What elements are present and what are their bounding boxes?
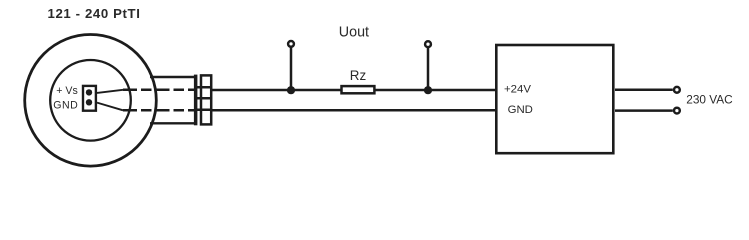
wire fan from pin 2 xyxy=(97,103,123,111)
svg-text:+ Vs: + Vs xyxy=(56,85,78,97)
wire supply to 230VAC top xyxy=(615,89,673,92)
Uout terminal stub right xyxy=(427,48,430,90)
svg-text:121 - 240 PtTI: 121 - 240 PtTI xyxy=(48,6,141,21)
power supply box xyxy=(496,45,613,153)
svg-text:GND: GND xyxy=(53,100,78,112)
connector pin 2 (GND) xyxy=(86,99,92,105)
cable housing bottom line xyxy=(150,122,197,124)
terminal strip rung 3 xyxy=(194,109,212,112)
terminal strip rung 1 xyxy=(194,86,212,89)
connector pin 1 (+Vs) xyxy=(86,89,92,95)
sensor inner circle xyxy=(50,60,131,141)
svg-text:Rz: Rz xyxy=(350,68,367,83)
Uout terminal circle left xyxy=(288,41,294,47)
Uout terminal circle right xyxy=(425,41,431,47)
junction node left xyxy=(287,86,295,94)
dashed cable wire +Vs xyxy=(123,89,196,92)
wire top output xyxy=(212,89,341,92)
cable housing top line xyxy=(150,76,197,78)
resistor Rz xyxy=(342,86,375,93)
junction node right xyxy=(424,86,432,94)
sensor outer circle xyxy=(25,35,157,167)
Uout terminal stub left xyxy=(290,48,293,91)
terminal strip body xyxy=(201,75,211,124)
terminal strip rung 2 xyxy=(194,97,212,100)
dashed cable wire GND xyxy=(123,109,196,112)
terminal strip mating bar xyxy=(194,75,198,126)
svg-text:Uout: Uout xyxy=(339,25,369,41)
svg-text:GND: GND xyxy=(508,104,533,116)
sensor connector box xyxy=(83,86,96,111)
svg-text:+24V: +24V xyxy=(504,84,531,96)
230VAC terminal circle top xyxy=(674,87,680,93)
svg-text:230 VAC: 230 VAC xyxy=(686,93,733,107)
230VAC terminal circle bottom xyxy=(674,108,680,114)
wire bottom output xyxy=(212,109,496,112)
wire supply to 230VAC bottom xyxy=(615,109,673,112)
wire resistor to supply xyxy=(375,89,496,92)
wire fan from pin 1 xyxy=(97,90,123,93)
